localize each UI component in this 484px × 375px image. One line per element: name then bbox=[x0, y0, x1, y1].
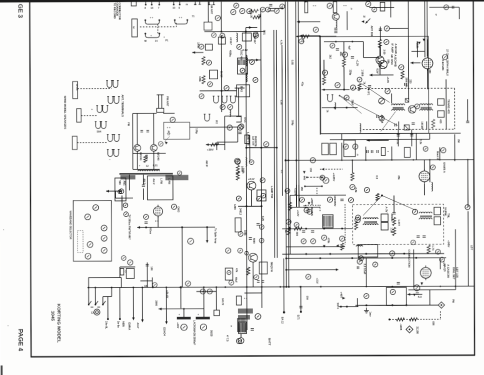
junction bbox=[181, 226, 183, 228]
circled ref bbox=[423, 146, 428, 151]
coil bbox=[356, 245, 363, 246]
speaker jack bbox=[107, 97, 114, 104]
circled ref bbox=[253, 33, 258, 38]
circled ref bbox=[280, 4, 285, 9]
terminal pin bbox=[145, 2, 147, 6]
circled ref bbox=[239, 124, 244, 129]
terminal pin bbox=[173, 2, 175, 6]
mixer tube bbox=[422, 56, 433, 71]
resistor bbox=[351, 173, 354, 181]
jack J2 bbox=[305, 2, 308, 13]
circled ref bbox=[261, 193, 266, 198]
capacitor bbox=[423, 236, 426, 238]
circled ref bbox=[144, 214, 149, 219]
capacitor bbox=[410, 134, 413, 136]
capacitor bbox=[144, 222, 147, 224]
circled ref bbox=[322, 235, 327, 240]
svg-text:+ +: + + bbox=[150, 16, 154, 19]
junction bbox=[351, 41, 353, 43]
junction bbox=[141, 287, 143, 289]
svg-text:0.01: 0.01 bbox=[153, 164, 158, 167]
svg-text:31108: 31108 bbox=[415, 326, 419, 334]
speaker jack bbox=[113, 96, 120, 103]
svg-text:E(T): E(T) bbox=[296, 315, 299, 320]
output transformer T3 secondary bbox=[363, 224, 378, 225]
resistor bbox=[211, 143, 219, 146]
svg-text:TNL: TNL bbox=[447, 213, 451, 218]
capacitor bbox=[379, 29, 382, 31]
speaker jack bbox=[112, 81, 119, 88]
wire bbox=[240, 334, 242, 337]
wire bbox=[379, 46, 381, 56]
junction bbox=[305, 228, 307, 230]
svg-text:600: 600 bbox=[295, 232, 298, 237]
svg-text:AM1: AM1 bbox=[122, 180, 125, 186]
junction bbox=[323, 228, 325, 230]
svg-text:2.2k: 2.2k bbox=[280, 100, 283, 105]
wire bbox=[467, 99, 469, 121]
wire bbox=[250, 190, 252, 206]
wire bbox=[261, 287, 263, 293]
wire bbox=[247, 59, 260, 61]
svg-text:0.02: 0.02 bbox=[396, 139, 399, 144]
capacitor bbox=[336, 49, 339, 51]
arrow bbox=[256, 59, 259, 62]
junction bbox=[261, 205, 263, 207]
svg-text:+3.1V: +3.1V bbox=[248, 178, 255, 181]
junction bbox=[340, 306, 342, 308]
junction bbox=[285, 257, 287, 259]
svg-text:0.5V: 0.5V bbox=[375, 69, 378, 74]
dashed lead bbox=[316, 188, 318, 196]
bus junction bbox=[152, 286, 154, 288]
svg-text:6BQ5 W: 6BQ5 W bbox=[270, 262, 274, 273]
svg-text:To Spkr Amp: To Spkr Amp bbox=[214, 228, 217, 244]
PS box top bbox=[290, 194, 346, 196]
wire bbox=[128, 175, 130, 191]
bus junction bbox=[224, 286, 226, 288]
svg-text:+: + bbox=[91, 107, 93, 111]
svg-text:SW 4: SW 4 bbox=[336, 303, 339, 310]
circled ref bbox=[441, 148, 446, 153]
block bbox=[257, 190, 266, 201]
circled ref bbox=[153, 283, 158, 288]
wire bbox=[140, 280, 152, 282]
wire bbox=[246, 147, 276, 149]
junction bbox=[300, 286, 302, 288]
circled ref bbox=[465, 205, 470, 210]
arrow bbox=[321, 168, 324, 171]
circled ref rod bbox=[177, 171, 181, 175]
wire bbox=[458, 7, 460, 19]
wire bbox=[121, 195, 123, 210]
circled ref bbox=[158, 142, 163, 147]
resistor bbox=[342, 59, 345, 67]
wire bbox=[133, 168, 160, 170]
arrow bbox=[192, 51, 195, 54]
circled ref bbox=[224, 86, 229, 91]
bus junction bbox=[413, 286, 415, 288]
wire bbox=[221, 91, 223, 112]
circled ref bbox=[372, 7, 377, 12]
circled ref bbox=[247, 9, 252, 14]
svg-text:FM: FM bbox=[127, 122, 130, 126]
power transformer T4 secondary bbox=[419, 218, 432, 219]
wire bbox=[183, 309, 185, 317]
junction bbox=[260, 147, 262, 149]
dashed wire bbox=[389, 318, 440, 320]
resistor bbox=[427, 245, 430, 253]
junction bbox=[111, 287, 113, 289]
svg-text:NOne: NOne bbox=[149, 227, 152, 234]
arrow bbox=[420, 282, 423, 285]
wire bbox=[203, 287, 205, 316]
svg-text:2k2: 2k2 bbox=[328, 55, 331, 60]
svg-text:A-0: A-0 bbox=[301, 38, 305, 43]
wire bbox=[216, 142, 218, 150]
wire bbox=[324, 41, 363, 43]
svg-text:1uF A7F: 1uF A7F bbox=[251, 136, 254, 146]
transistor bbox=[332, 13, 339, 20]
capacitor bbox=[452, 6, 454, 9]
svg-text:A BCH6: A BCH6 bbox=[394, 43, 398, 54]
circled ref bbox=[228, 105, 233, 110]
circled ref bbox=[185, 281, 190, 286]
resistor bbox=[236, 172, 239, 180]
wire bbox=[379, 26, 381, 39]
junction bbox=[346, 107, 348, 109]
bus junction bbox=[454, 159, 456, 161]
wire bbox=[225, 115, 242, 117]
wire bbox=[137, 226, 215, 228]
svg-text:OSC: OSC bbox=[243, 117, 247, 123]
capacitor bbox=[367, 150, 369, 153]
svg-text:47k: 47k bbox=[235, 268, 238, 273]
resistor bbox=[358, 84, 361, 91]
resistor bbox=[322, 77, 325, 85]
pilot lamp bbox=[94, 309, 100, 315]
circled ref bbox=[384, 26, 389, 31]
output section dashed box bbox=[353, 204, 444, 244]
transistor IF bbox=[408, 106, 416, 114]
circled ref bbox=[227, 125, 232, 130]
junction bbox=[94, 287, 96, 289]
capacitor bbox=[392, 212, 395, 214]
junction bbox=[306, 176, 308, 178]
wire bbox=[217, 141, 238, 143]
dashed lead bbox=[439, 311, 441, 319]
component block bbox=[210, 70, 218, 79]
svg-text:47p: 47p bbox=[301, 82, 304, 87]
svg-text:L FM: L FM bbox=[159, 178, 162, 184]
wire bbox=[151, 277, 153, 287]
bus junction bbox=[467, 159, 469, 161]
svg-text:+ +: + + bbox=[167, 126, 171, 129]
wire bbox=[323, 60, 325, 77]
wire bbox=[319, 36, 321, 134]
schematic border bottom bbox=[31, 355, 475, 357]
capacitor bbox=[311, 231, 314, 233]
capacitor bbox=[405, 83, 407, 86]
block bbox=[381, 147, 385, 155]
capacitor bbox=[249, 238, 252, 240]
circled ref bbox=[188, 238, 194, 244]
svg-text:TV 300xx FM/TV/AM?: TV 300xx FM/TV/AM? bbox=[128, 214, 131, 240]
circled ref bbox=[240, 68, 245, 73]
box bottom extension bbox=[321, 132, 461, 135]
junction bbox=[245, 31, 247, 33]
svg-text:6AW8 A: 6AW8 A bbox=[442, 162, 446, 174]
circled ref bbox=[253, 32, 258, 37]
resistor bbox=[378, 39, 381, 47]
svg-text:-1105: -1105 bbox=[399, 323, 403, 330]
svg-text:CONNECTION: CONNECTION bbox=[407, 249, 411, 267]
svg-text:1mv: 1mv bbox=[368, 312, 371, 318]
dashed stub bbox=[157, 24, 159, 33]
svg-text:27 CM X 18F/4A WHLX: 27 CM X 18F/4A WHLX bbox=[445, 49, 448, 76]
coil bbox=[236, 33, 237, 42]
electrolytic cap plate bbox=[196, 317, 210, 320]
circled ref bbox=[384, 39, 389, 44]
transistor block bbox=[242, 33, 251, 41]
choke winding bbox=[238, 315, 249, 320]
svg-text:1 50/6: 1 50/6 bbox=[361, 70, 364, 77]
junction bbox=[415, 257, 417, 259]
block bbox=[120, 268, 124, 275]
wire bbox=[181, 227, 183, 287]
circled ref bbox=[259, 225, 264, 230]
coil bbox=[336, 21, 337, 28]
svg-text:AF117: AF117 bbox=[229, 37, 233, 45]
circled ref bbox=[444, 5, 449, 10]
junction bbox=[285, 269, 287, 271]
wire bbox=[426, 39, 428, 56]
svg-text:3w 6o: 3w 6o bbox=[116, 321, 119, 328]
coil bbox=[360, 124, 361, 133]
dashed link bbox=[81, 115, 98, 117]
coil block bbox=[323, 215, 334, 228]
junction bbox=[295, 159, 297, 161]
svg-text:+4.4V: +4.4V bbox=[386, 76, 389, 83]
circled control bbox=[87, 242, 93, 248]
svg-text:MAINS: MAINS bbox=[310, 208, 313, 216]
capacitor bbox=[412, 123, 415, 125]
speaker jack bbox=[95, 122, 102, 129]
terminal label bbox=[381, 222, 388, 230]
svg-text:IF AMP: IF AMP bbox=[390, 43, 394, 53]
capacitor bbox=[334, 31, 337, 33]
ferrite rod core bbox=[119, 173, 173, 175]
circled ref bbox=[236, 338, 241, 343]
arrow bbox=[407, 293, 410, 296]
coil label box bbox=[115, 178, 126, 201]
svg-text:4° 7.5: 4° 7.5 bbox=[226, 335, 229, 342]
circled ref bbox=[411, 240, 416, 245]
dashed wire bbox=[320, 168, 343, 170]
capacitor bbox=[368, 86, 371, 88]
output transistor bbox=[249, 253, 258, 262]
resistor bbox=[301, 35, 309, 38]
circled ref bbox=[235, 159, 240, 164]
bus junction bbox=[391, 159, 393, 161]
bus junction bbox=[285, 159, 287, 161]
wire bbox=[454, 229, 456, 289]
svg-text:= =: = = bbox=[343, 5, 347, 8]
circled ref bbox=[385, 89, 390, 94]
terminal label bbox=[434, 217, 441, 225]
wire bbox=[415, 133, 417, 159]
svg-text:J02 A15: J02 A15 bbox=[380, 114, 383, 123]
jack J4 bbox=[380, 2, 385, 11]
coil bbox=[246, 158, 247, 167]
circled ref bbox=[359, 256, 364, 261]
circled ref bbox=[294, 222, 299, 227]
circled ref bbox=[310, 158, 315, 163]
bus junction bbox=[261, 286, 263, 288]
pin bbox=[213, 2, 215, 5]
wire bbox=[296, 35, 336, 37]
svg-text:+245V: +245V bbox=[447, 240, 450, 247]
block bbox=[330, 143, 337, 155]
resistor bbox=[202, 76, 205, 84]
circled ref bbox=[235, 158, 241, 164]
capacitor bbox=[416, 293, 419, 295]
ground bbox=[364, 308, 369, 313]
svg-text:450: 450 bbox=[300, 187, 303, 192]
pin bbox=[208, 2, 210, 5]
IF transformer T1 bbox=[392, 104, 405, 111]
svg-text:a7b 4V: a7b 4V bbox=[165, 290, 168, 298]
wire bbox=[426, 121, 428, 129]
svg-text:2.1V: 2.1V bbox=[242, 48, 248, 52]
bus junction bbox=[455, 285, 457, 287]
junction bbox=[221, 90, 223, 92]
circled ref bbox=[119, 189, 124, 194]
circled ref bbox=[299, 39, 304, 44]
junction bbox=[403, 253, 405, 255]
schematic border right bbox=[473, 0, 474, 356]
plug P1 bbox=[131, 1, 136, 6]
circled ref bbox=[366, 1, 371, 6]
svg-text:FM ANT: FM ANT bbox=[166, 96, 170, 106]
svg-text:220p: 220p bbox=[349, 70, 352, 76]
junction bbox=[276, 147, 278, 149]
jack bbox=[221, 96, 228, 103]
circled ref bbox=[240, 8, 245, 13]
diode circle bbox=[379, 98, 385, 104]
svg-text:+31V: +31V bbox=[315, 278, 318, 284]
tuner box top bbox=[163, 112, 174, 114]
core line bbox=[420, 216, 432, 218]
wire bbox=[88, 276, 121, 278]
wire bbox=[190, 126, 238, 128]
terminal dot bbox=[300, 311, 302, 313]
wire bbox=[238, 88, 240, 116]
wire bbox=[467, 211, 469, 286]
choke winding bbox=[238, 308, 252, 313]
bus wire bbox=[273, 30, 276, 258]
connector U1 bbox=[144, 19, 160, 24]
junction bbox=[145, 226, 147, 228]
phono jack J1 bbox=[132, 19, 138, 37]
svg-text:+20V: +20V bbox=[207, 148, 214, 152]
output transformer T3 primary bbox=[363, 218, 378, 219]
junction bbox=[405, 304, 407, 306]
terminal strip TS3 bbox=[72, 136, 77, 149]
terminal label bbox=[438, 99, 445, 106]
capacitor bbox=[395, 123, 397, 126]
wire bbox=[295, 185, 297, 207]
wire bbox=[237, 127, 239, 142]
resistor bbox=[253, 16, 261, 19]
capacitor bbox=[302, 231, 305, 233]
pin bbox=[194, 2, 196, 5]
circled control bbox=[85, 214, 91, 220]
bus wire bbox=[281, 45, 284, 196]
svg-text:100k: 100k bbox=[241, 168, 244, 174]
wire bbox=[133, 152, 166, 154]
svg-text:50/25: 50/25 bbox=[209, 330, 212, 337]
svg-text:455: 455 bbox=[439, 119, 442, 124]
wire bbox=[343, 42, 345, 59]
wire bbox=[297, 21, 320, 23]
junction bbox=[329, 253, 331, 255]
winding bbox=[324, 216, 332, 227]
circled control bbox=[101, 225, 107, 231]
circled ref bbox=[412, 209, 417, 214]
circled ref bbox=[238, 232, 243, 237]
speaker diamond bbox=[438, 302, 444, 308]
wire bbox=[299, 35, 320, 37]
bus wire bbox=[261, 8, 262, 287]
arrow bbox=[342, 297, 345, 300]
jack J3 bbox=[333, 2, 337, 13]
choke winding bbox=[237, 318, 245, 332]
core line bbox=[420, 215, 432, 217]
wire bbox=[136, 113, 138, 144]
wire bbox=[268, 10, 274, 12]
capacitor bbox=[397, 282, 400, 284]
svg-text:TRANS 455: TRANS 455 bbox=[447, 99, 451, 114]
dashed link bbox=[140, 26, 176, 28]
svg-text:AM 2: AM 2 bbox=[142, 178, 145, 184]
junction bbox=[119, 318, 121, 320]
circled control bbox=[85, 253, 91, 259]
wire bbox=[283, 258, 285, 312]
resistor bbox=[376, 194, 379, 201]
svg-text:3-30: 3-30 bbox=[382, 49, 385, 54]
circled ref bbox=[440, 257, 445, 262]
circled ref bbox=[171, 204, 176, 209]
circled ref bbox=[215, 15, 220, 20]
wire bbox=[252, 262, 254, 287]
wire bbox=[286, 269, 336, 271]
circled ref bbox=[340, 236, 345, 241]
svg-text:6.8k: 6.8k bbox=[354, 188, 357, 193]
wire bbox=[322, 107, 358, 109]
svg-text:0.05: 0.05 bbox=[290, 60, 293, 65]
junction bbox=[132, 287, 134, 289]
transistor FM RF bbox=[134, 145, 141, 152]
circled ref bbox=[373, 262, 378, 267]
svg-text:LBT: LBT bbox=[470, 245, 473, 250]
wire drop bbox=[141, 287, 143, 320]
svg-text:+4.85V: +4.85V bbox=[332, 173, 336, 182]
speaker jack bbox=[107, 150, 114, 157]
top edge rule overlay bbox=[0, 0, 484, 2]
junction bbox=[321, 176, 323, 178]
winding above rod bbox=[138, 170, 160, 171]
